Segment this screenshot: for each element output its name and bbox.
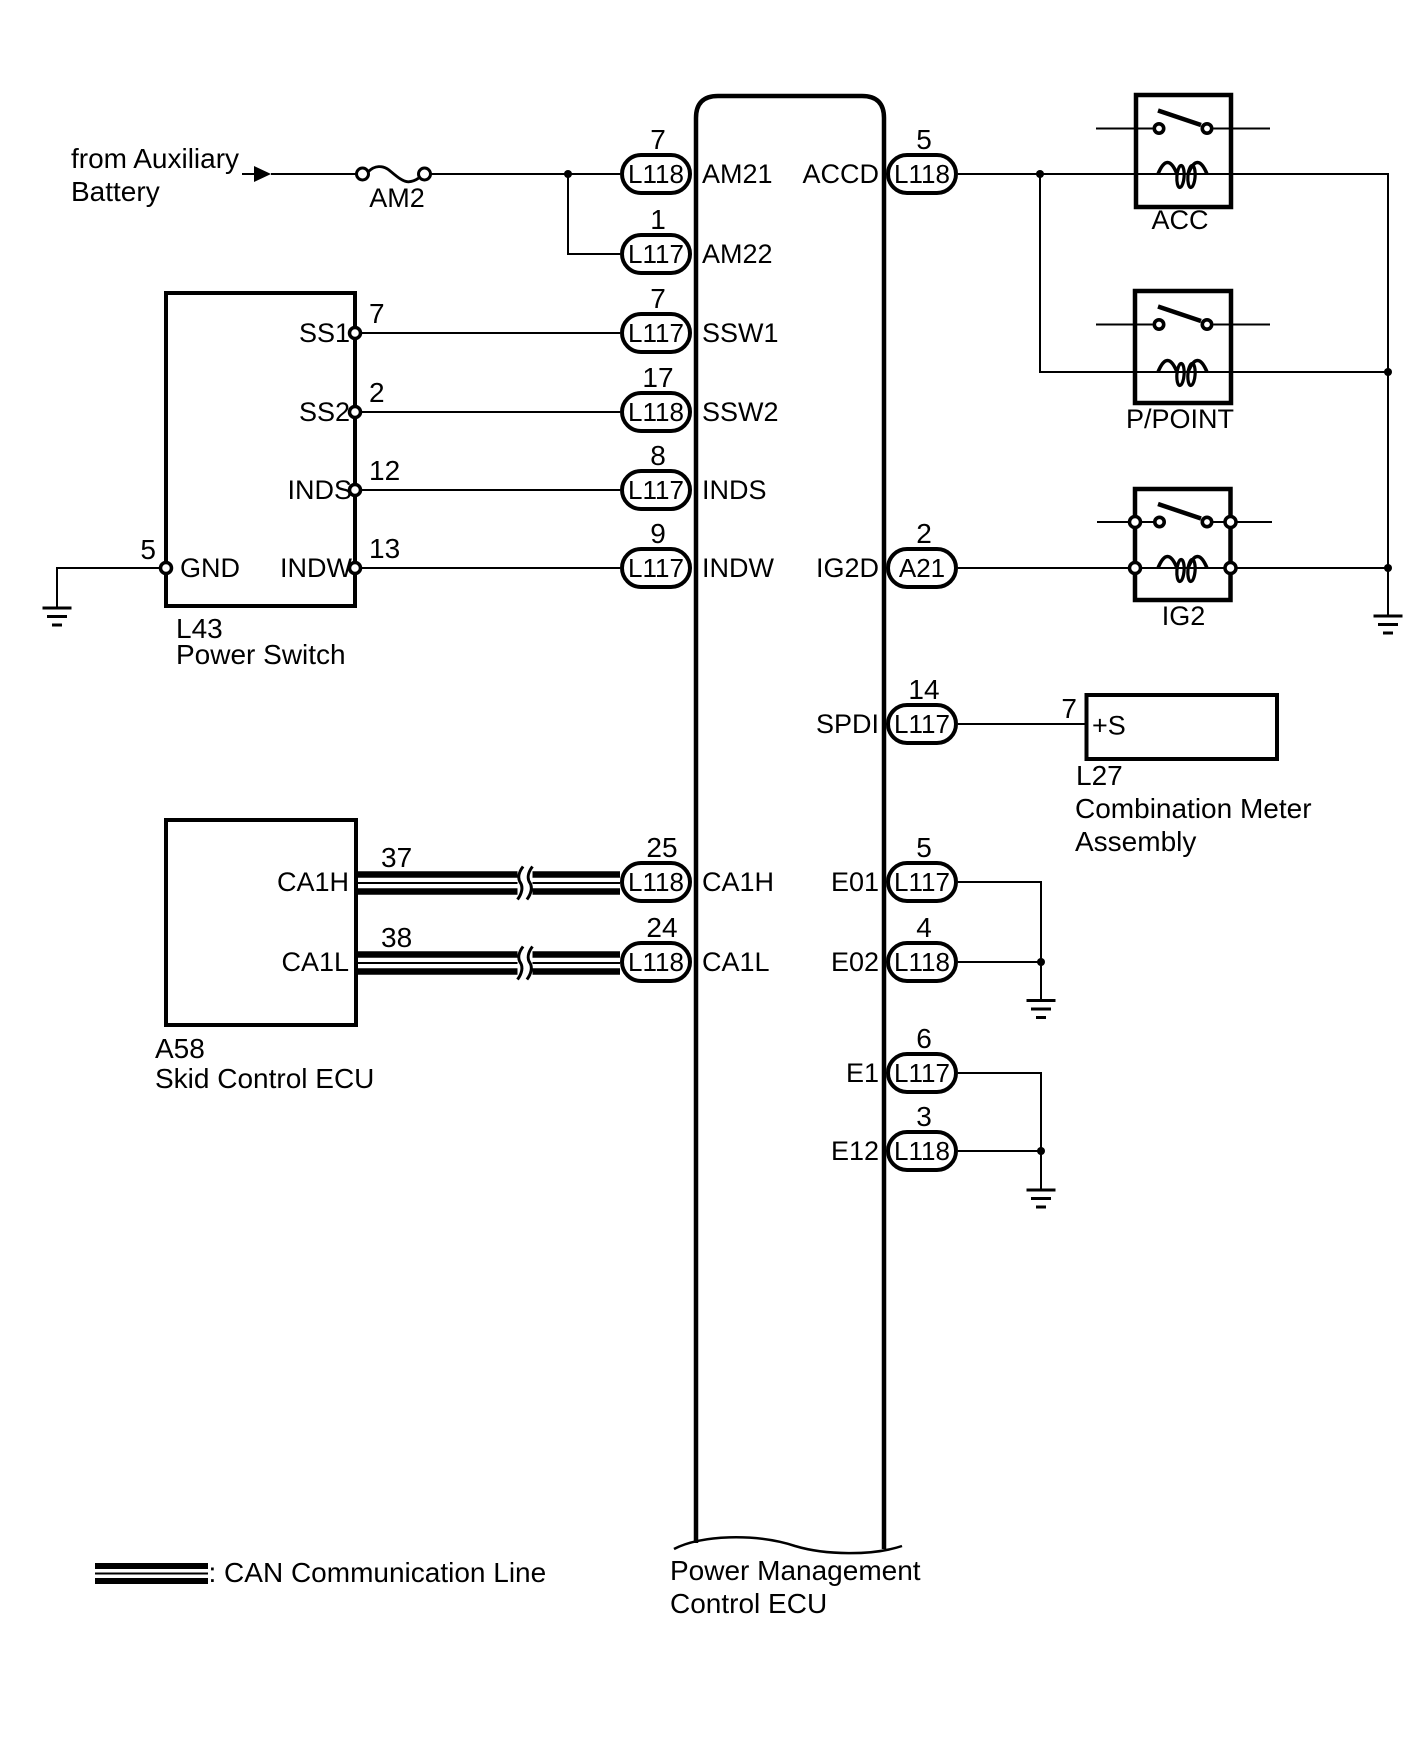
junction node E02: [1037, 958, 1045, 966]
connector L118 pin 5 (ACCD): [888, 124, 956, 193]
svg-text:L117: L117: [628, 318, 684, 348]
pin CA1H 37: [277, 842, 412, 897]
svg-text:A21: A21: [899, 553, 945, 583]
svg-text:L118: L118: [628, 397, 684, 427]
wire ACCD to ACC coil rail: [958, 173, 1388, 175]
label: from Auxiliary Battery: [71, 143, 239, 207]
svg-text:SSW2: SSW2: [702, 397, 779, 427]
svg-text:E1: E1: [846, 1058, 879, 1088]
pin INDS 12: [287, 455, 400, 505]
wire junction to AM22 pill: [568, 174, 620, 254]
svg-text:Skid Control ECU: Skid Control ECU: [155, 1063, 374, 1094]
svg-text:5: 5: [140, 534, 156, 565]
svg-text:L118: L118: [894, 159, 950, 189]
combination meter L27 box: [1061, 693, 1277, 759]
connector L117 pin 6 (E1): [888, 1023, 956, 1092]
svg-text:6: 6: [916, 1023, 932, 1054]
svg-text:L118: L118: [628, 867, 684, 897]
svg-text:2: 2: [369, 377, 385, 408]
wire E12 to ground: [958, 1150, 1041, 1152]
CAN line CA1L (A58 to ECU): [356, 947, 620, 980]
wire A21 to IG2 coil: [958, 567, 1128, 569]
svg-text:8: 8: [650, 440, 666, 471]
svg-text:AM21: AM21: [702, 159, 773, 189]
junction node ACC branch: [1036, 170, 1044, 178]
svg-text:Assembly: Assembly: [1075, 826, 1196, 857]
svg-text:AM2: AM2: [369, 183, 425, 213]
svg-text:12: 12: [369, 455, 400, 486]
svg-text:7: 7: [650, 124, 666, 155]
svg-text:L117: L117: [628, 553, 684, 583]
CAN line CA1H (A58 to ECU): [356, 867, 620, 900]
svg-text:P/POINT: P/POINT: [1126, 404, 1234, 434]
svg-text:L118: L118: [628, 159, 684, 189]
connector A21 pin 2 (IG2D): [888, 518, 956, 587]
wire branch to P/POINT coil: [1040, 174, 1388, 372]
svg-text:Battery: Battery: [71, 176, 160, 207]
svg-text:37: 37: [381, 842, 412, 873]
connector L118 pin 17 (SSW2): [622, 362, 690, 431]
svg-text:14: 14: [908, 674, 939, 705]
svg-text:INDW: INDW: [702, 553, 774, 583]
label L27 Combination Meter Assembly: [1075, 760, 1312, 857]
svg-text:13: 13: [369, 533, 400, 564]
svg-text:CA1L: CA1L: [281, 947, 349, 977]
svg-text:IG2: IG2: [1162, 601, 1206, 631]
pin SS1 7: [299, 298, 385, 348]
svg-text:ACCD: ACCD: [802, 159, 879, 189]
pin INDW 13: [280, 533, 400, 583]
connector L118 pin 3 (E12): [888, 1101, 956, 1170]
svg-text:L117: L117: [628, 239, 684, 269]
svg-text:4: 4: [916, 912, 932, 943]
skid control ECU A58 box: [166, 820, 356, 1025]
svg-text:from Auxiliary: from Auxiliary: [71, 143, 239, 174]
wire SS1 to SSW1: [355, 332, 620, 334]
wire SS2 to SSW2: [355, 411, 620, 413]
wire arrow to fuse: [271, 173, 357, 175]
ECU wavy bottom edge: [674, 1537, 902, 1553]
label L43 Power Switch: [176, 613, 346, 670]
svg-text:E12: E12: [831, 1136, 879, 1166]
connector L117 pin 7 (SSW1): [622, 283, 690, 352]
ground right rail: [1374, 615, 1403, 618]
wire GND to ground: [57, 568, 160, 608]
connector L118 pin 7 (AM21): [622, 124, 690, 193]
relay P/POINT: [1096, 291, 1270, 403]
svg-text:L118: L118: [628, 947, 684, 977]
svg-text:SS2: SS2: [299, 397, 350, 427]
svg-text:E02: E02: [831, 947, 879, 977]
svg-text:AM22: AM22: [702, 239, 773, 269]
connector L117 pin 9 (INDW): [622, 518, 690, 587]
label A58 Skid Control ECU: [155, 1033, 374, 1094]
svg-text:7: 7: [1061, 693, 1077, 724]
connector L117 pin 5 (E01): [888, 832, 956, 901]
svg-text:24: 24: [646, 912, 677, 943]
svg-text:Power Management: Power Management: [670, 1555, 921, 1586]
svg-text:INDS: INDS: [702, 475, 767, 505]
svg-text:Combination Meter: Combination Meter: [1075, 793, 1312, 824]
svg-text:INDW: INDW: [280, 553, 352, 583]
svg-text:Power Switch: Power Switch: [176, 639, 346, 670]
svg-text:5: 5: [916, 124, 932, 155]
legend CAN communication line symbol: [95, 1563, 208, 1569]
power management control ECU body: [696, 96, 884, 1549]
svg-text:L117: L117: [628, 475, 684, 505]
svg-text:25: 25: [646, 832, 677, 863]
svg-text:3: 3: [916, 1101, 932, 1132]
svg-text:INDS: INDS: [287, 475, 352, 505]
pin SS2 2: [299, 377, 385, 427]
svg-text:L117: L117: [894, 867, 950, 897]
svg-text:IG2D: IG2D: [816, 553, 879, 583]
svg-text:A58: A58: [155, 1033, 205, 1064]
svg-text:7: 7: [650, 283, 666, 314]
svg-text:17: 17: [642, 362, 673, 393]
pin GND 5: [140, 534, 240, 583]
svg-text:Control ECU: Control ECU: [670, 1588, 827, 1619]
svg-text:7: 7: [369, 298, 385, 329]
junction node E12: [1037, 1147, 1045, 1155]
label Power Management Control ECU: [670, 1555, 921, 1619]
fuse AM2: [357, 167, 431, 213]
right power rail: [1387, 173, 1389, 616]
svg-text:L27: L27: [1076, 760, 1123, 791]
svg-text:SSW1: SSW1: [702, 318, 779, 348]
ground E01/E02: [1027, 999, 1056, 1002]
ground power switch: [43, 607, 72, 610]
svg-text:CA1H: CA1H: [702, 867, 774, 897]
svg-text:SS1: SS1: [299, 318, 350, 348]
svg-text:E01: E01: [831, 867, 879, 897]
svg-text:L118: L118: [894, 1136, 950, 1166]
svg-text:CA1H: CA1H: [277, 867, 349, 897]
arrow from auxiliary battery: [242, 166, 271, 182]
pin CA1L 38: [281, 922, 412, 977]
wire E02 to ground: [958, 961, 1041, 963]
relay IG2: [1097, 489, 1388, 600]
svg-text:GND: GND: [180, 553, 240, 583]
svg-text:2: 2: [916, 518, 932, 549]
relay ACC: [1096, 95, 1270, 207]
wire INDS to INDS: [355, 489, 620, 491]
junction node P/POINT rail: [1384, 368, 1392, 376]
connector L117 pin 14 (SPDI): [888, 674, 956, 743]
svg-text:CA1L: CA1L: [702, 947, 770, 977]
junction node battery feed: [564, 170, 572, 178]
connector L117 pin 1 (AM22): [622, 204, 690, 273]
svg-text:SPDI: SPDI: [816, 709, 879, 739]
connector L118 pin 4 (E02): [888, 912, 956, 981]
svg-text:9: 9: [650, 518, 666, 549]
wire fuse to AM21 pill: [431, 173, 621, 175]
svg-text:L117: L117: [894, 1058, 950, 1088]
svg-text:+S: +S: [1092, 711, 1126, 741]
power switch L43 box: [166, 293, 355, 606]
connector L118 pin 25 (CA1H): [622, 832, 690, 901]
wire INDW to INDW: [355, 567, 620, 569]
svg-text:1: 1: [650, 204, 666, 235]
junction node IG2 rail: [1384, 564, 1392, 572]
connector L118 pin 24 (CA1L): [622, 912, 690, 981]
wire E01 to ground: [958, 882, 1041, 1000]
wire E1 to ground: [958, 1073, 1041, 1190]
svg-text:: CAN Communication Line: : CAN Communication Line: [209, 1557, 547, 1588]
connector L117 pin 8 (INDS): [622, 440, 690, 509]
wire SPDI to L27: [958, 723, 1086, 725]
svg-text:38: 38: [381, 922, 412, 953]
svg-text:5: 5: [916, 832, 932, 863]
svg-text:L117: L117: [894, 709, 950, 739]
ground E1/E12: [1027, 1189, 1056, 1192]
svg-text:ACC: ACC: [1151, 205, 1208, 235]
svg-text:L118: L118: [894, 947, 950, 977]
